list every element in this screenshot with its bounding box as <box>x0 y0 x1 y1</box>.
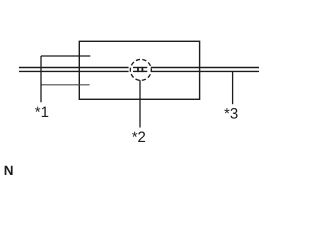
svg-text:*2: *2 <box>132 129 146 146</box>
svg-text:*3: *3 <box>224 105 238 122</box>
svg-text:N: N <box>4 163 14 178</box>
svg-text:*1: *1 <box>35 104 49 121</box>
